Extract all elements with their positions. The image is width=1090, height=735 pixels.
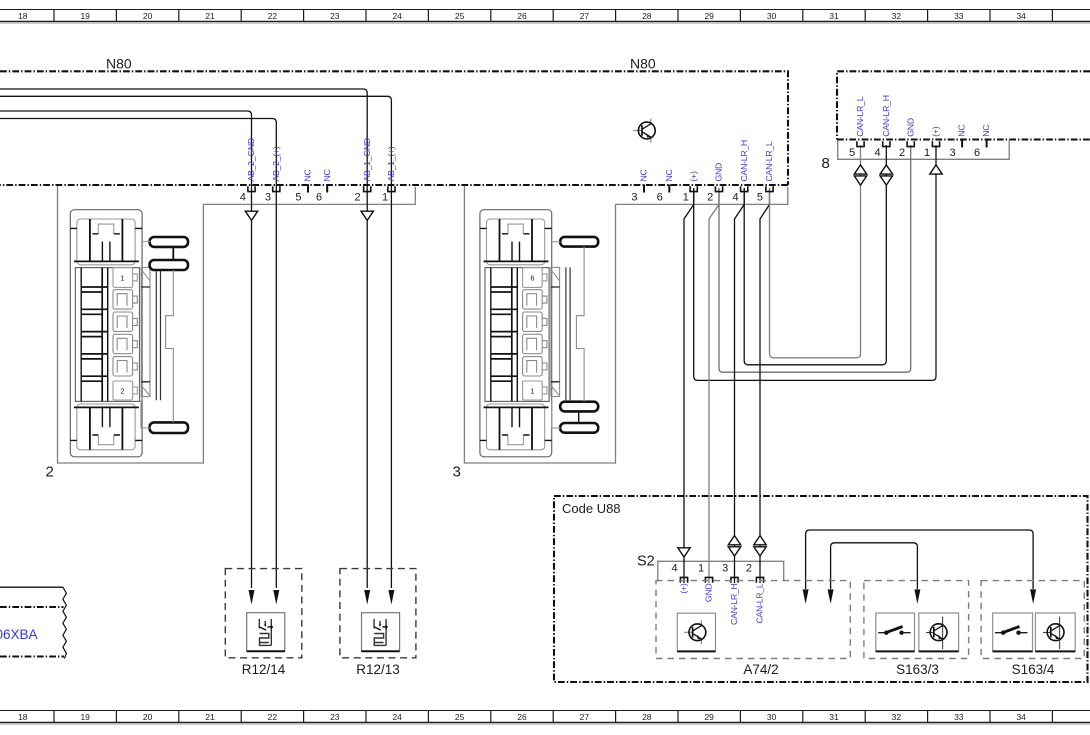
svg-text:2: 2 bbox=[707, 192, 713, 204]
svg-text:25: 25 bbox=[455, 11, 465, 21]
svg-text:4: 4 bbox=[671, 563, 677, 575]
component 2 container bbox=[58, 186, 416, 463]
svg-text:23: 23 bbox=[330, 712, 340, 722]
svg-text:AB_2_GND: AB_2_GND bbox=[246, 138, 256, 181]
svg-text:CAN-LR_H: CAN-LR_H bbox=[881, 95, 891, 136]
connector 8 pin 1 tick bbox=[932, 141, 941, 146]
svg-text:AB_1_GND: AB_1_GND bbox=[362, 138, 372, 181]
svg-text:4: 4 bbox=[240, 192, 246, 204]
svg-text:S2: S2 bbox=[637, 554, 655, 570]
svg-text:N80: N80 bbox=[630, 56, 656, 72]
net CAN-LR_H: N80 pin4 to connector8 pin4 bbox=[744, 145, 886, 365]
net CAN-LR_L: N80 pin5 to connector8 pin5 bbox=[770, 145, 861, 358]
svg-text:19: 19 bbox=[80, 712, 90, 722]
N80 connector 3 pin 5 tick bbox=[765, 186, 774, 191]
svg-text:1: 1 bbox=[924, 147, 930, 159]
svg-text:18: 18 bbox=[18, 712, 28, 722]
R12/14 element icon box bbox=[247, 613, 285, 652]
svg-text:22: 22 bbox=[268, 11, 278, 21]
svg-text:30: 30 bbox=[767, 11, 777, 21]
N80 connector 3 pin 3 NC tick bbox=[643, 185, 645, 193]
svg-text:(+): (+) bbox=[931, 126, 941, 136]
net (+): N80 pin1 to connector8 pin1 bbox=[694, 145, 936, 380]
feed wire to pin4 AB_2_GND bbox=[0, 111, 252, 588]
N80 connector 2 pin 6 NC tick bbox=[326, 185, 328, 193]
svg-text:3: 3 bbox=[453, 464, 461, 481]
svg-text:CAN-LR_L: CAN-LR_L bbox=[764, 141, 774, 181]
svg-text:4: 4 bbox=[874, 147, 880, 159]
R12/14 heater element icon bbox=[259, 619, 273, 646]
svg-text:20: 20 bbox=[143, 11, 153, 21]
twisted pair symbol on CAN-LR_H wire at S2 bbox=[728, 536, 740, 556]
feed wire to pin2 AB_1_GND bbox=[0, 89, 367, 588]
component S163/4 dashed box bbox=[981, 581, 1084, 677]
S2 pin 1 tick bbox=[705, 577, 714, 582]
N80 connector 2 pin 2 tick bbox=[363, 186, 372, 191]
svg-text:21: 21 bbox=[205, 712, 215, 722]
arrow into A74/2 from S163/4 wire bbox=[803, 589, 809, 604]
svg-text:24: 24 bbox=[392, 11, 402, 21]
net (+): N80 pin1 to S2 pin4 bbox=[684, 188, 694, 583]
svg-text:4: 4 bbox=[732, 192, 738, 204]
feed wire to pin3 AB_2_(+) bbox=[0, 119, 276, 589]
component 2 connector housing drawing bbox=[70, 210, 188, 457]
arrow into S163/3 bbox=[914, 589, 920, 604]
svg-text:6: 6 bbox=[530, 274, 534, 283]
S2 pin 4 tick bbox=[680, 577, 689, 582]
net GND: N80 pin2 to connector8 pin2 bbox=[719, 145, 911, 372]
svg-text:28: 28 bbox=[642, 11, 652, 21]
svg-text:1: 1 bbox=[698, 563, 704, 575]
connector 8 pin 2 tick bbox=[906, 141, 915, 146]
connector 8 pin 6 NC tick bbox=[986, 139, 988, 147]
N80 connector 2 pin 3 tick bbox=[272, 186, 281, 191]
S163/3 switch icon bbox=[878, 627, 911, 635]
svg-text:30: 30 bbox=[767, 712, 777, 722]
connector 8 pin 4 tick bbox=[882, 141, 891, 146]
svg-text:21: 21 bbox=[205, 11, 215, 21]
svg-text:S163/3: S163/3 bbox=[896, 662, 939, 677]
svg-text:5: 5 bbox=[757, 192, 763, 204]
direction triangle on AB_1_GND wire bbox=[361, 211, 373, 220]
svg-text:2: 2 bbox=[120, 387, 124, 396]
svg-text:20: 20 bbox=[143, 712, 153, 722]
svg-text:(+): (+) bbox=[688, 171, 698, 181]
transistor icon inside N80 bbox=[633, 119, 655, 143]
N80 connector 2 pin 1 tick bbox=[387, 186, 396, 191]
N80 connector 3 pin 1 tick bbox=[689, 186, 698, 191]
svg-text:8: 8 bbox=[822, 155, 830, 172]
twisted pair symbol on CAN-LR_L wire at S2 bbox=[754, 536, 766, 556]
bottom ruler bbox=[0, 711, 1090, 725]
svg-text:26: 26 bbox=[517, 712, 527, 722]
svg-text:06XBA: 06XBA bbox=[0, 627, 38, 642]
N80 connector 2 pin 5 NC tick bbox=[307, 185, 309, 193]
net CAN-LR_H: N80 pin4 to S2 pin3 bbox=[735, 188, 745, 583]
svg-text:24: 24 bbox=[392, 712, 402, 722]
svg-text:6: 6 bbox=[657, 192, 663, 204]
svg-text:NC: NC bbox=[303, 169, 313, 181]
svg-text:NC: NC bbox=[957, 125, 967, 137]
net GND: N80 pin2 to S2 pin1 bbox=[709, 188, 719, 583]
S163/4 switch icon bbox=[995, 627, 1028, 635]
S2 pin 2 tick bbox=[756, 577, 765, 582]
svg-text:29: 29 bbox=[704, 712, 714, 722]
S2 pin 3 tick bbox=[730, 577, 739, 582]
svg-text:34: 34 bbox=[1016, 712, 1026, 722]
S163/3 transistor icon bbox=[926, 617, 947, 650]
arrow into S163/4 bbox=[1030, 589, 1036, 604]
component R12/14 dashed box bbox=[225, 569, 301, 677]
connector 8 pin 3 NC tick bbox=[961, 139, 963, 147]
svg-text:5: 5 bbox=[849, 147, 855, 159]
svg-text:3: 3 bbox=[949, 147, 955, 159]
svg-text:31: 31 bbox=[829, 712, 839, 722]
direction triangle on AB_2_GND wire bbox=[245, 211, 257, 220]
twisted pair symbol on CAN-LR_H wire at connector 8 bbox=[880, 165, 892, 185]
svg-text:GND: GND bbox=[905, 118, 915, 137]
R12/13 element icon box bbox=[362, 613, 400, 652]
svg-text:3: 3 bbox=[631, 192, 637, 204]
svg-text:32: 32 bbox=[892, 11, 902, 21]
svg-text:19: 19 bbox=[80, 11, 90, 21]
arrow into A74/2 from S163/3 wire bbox=[828, 589, 834, 604]
svg-text:18: 18 bbox=[18, 11, 28, 21]
svg-text:25: 25 bbox=[455, 712, 465, 722]
svg-text:Code U88: Code U88 bbox=[562, 501, 621, 516]
svg-text:22: 22 bbox=[268, 712, 278, 722]
svg-text:6: 6 bbox=[316, 192, 322, 204]
wire A74/2 to S163/3 bbox=[831, 543, 918, 589]
clips bbox=[150, 237, 188, 247]
svg-text:GND: GND bbox=[704, 584, 714, 603]
svg-text:CAN-LR_H: CAN-LR_H bbox=[739, 140, 749, 181]
svg-text:33: 33 bbox=[954, 712, 964, 722]
arrow into R12/14 pin AB_2_(+) bbox=[273, 590, 279, 605]
svg-text:6: 6 bbox=[974, 147, 980, 159]
svg-text:27: 27 bbox=[580, 11, 590, 21]
svg-text:28: 28 bbox=[642, 712, 652, 722]
feed wire to pin1 AB_1_(+) bbox=[0, 96, 391, 588]
N80 connector 3 pin 6 NC tick bbox=[668, 185, 670, 193]
svg-text:R12/13: R12/13 bbox=[356, 662, 400, 677]
svg-text:34: 34 bbox=[1016, 11, 1026, 21]
svg-text:29: 29 bbox=[704, 11, 714, 21]
svg-text:(+): (+) bbox=[679, 583, 689, 593]
N80 boundary left bbox=[0, 71, 788, 185]
svg-text:32: 32 bbox=[892, 712, 902, 722]
svg-text:S163/4: S163/4 bbox=[1012, 662, 1055, 677]
component S163/3 dashed box bbox=[864, 581, 969, 677]
right device boundary bbox=[837, 71, 1090, 139]
component 3 connector housing drawing bbox=[480, 210, 598, 457]
svg-text:CAN-LR_H: CAN-LR_H bbox=[729, 584, 739, 625]
connector 8 bracket bbox=[838, 140, 1010, 159]
R12/13 heater element icon bbox=[374, 619, 388, 646]
N80 connector 3 pin 4 tick bbox=[740, 186, 749, 191]
N80 connector 2 pin 4 tick bbox=[247, 186, 256, 191]
svg-text:CAN-LR_L: CAN-LR_L bbox=[755, 583, 765, 623]
svg-text:2: 2 bbox=[46, 464, 54, 481]
arrow into R12/14 pin AB_2_GND bbox=[249, 590, 255, 605]
twisted pair symbol on CAN-LR_L wire at connector 8 bbox=[854, 165, 866, 185]
svg-text:3: 3 bbox=[265, 192, 271, 204]
svg-text:1: 1 bbox=[120, 274, 124, 283]
svg-text:N80: N80 bbox=[106, 56, 132, 72]
svg-text:2: 2 bbox=[899, 147, 905, 159]
svg-text:23: 23 bbox=[330, 11, 340, 21]
component R12/13 dashed box bbox=[340, 569, 416, 677]
svg-text:1: 1 bbox=[382, 192, 388, 204]
svg-text:NC: NC bbox=[981, 125, 991, 137]
svg-text:3: 3 bbox=[722, 563, 728, 575]
S163/4 transistor icon bbox=[1043, 617, 1064, 650]
svg-text:NC: NC bbox=[322, 169, 332, 181]
svg-text:GND: GND bbox=[714, 163, 724, 182]
svg-text:CAN-LR_L: CAN-LR_L bbox=[855, 96, 865, 136]
svg-text:AB_1_(+): AB_1_(+) bbox=[386, 146, 396, 181]
S2 bracket bbox=[658, 561, 784, 580]
svg-text:31: 31 bbox=[829, 11, 839, 21]
svg-text:33: 33 bbox=[954, 11, 964, 21]
svg-text:1: 1 bbox=[530, 387, 534, 396]
arrow into R12/13 pin AB_1_GND bbox=[364, 590, 370, 605]
direction triangle on (+) wire at S2 bbox=[678, 548, 690, 557]
svg-text:5: 5 bbox=[295, 192, 301, 204]
svg-text:R12/14: R12/14 bbox=[242, 662, 286, 677]
N80 connector 3 pin 2 tick bbox=[715, 186, 724, 191]
Code U88 box bbox=[554, 496, 1088, 682]
svg-text:27: 27 bbox=[580, 712, 590, 722]
wire A74/2 to S163/4 bbox=[806, 530, 1034, 589]
clips bbox=[560, 237, 598, 247]
top ruler bbox=[0, 10, 1090, 24]
svg-text:26: 26 bbox=[517, 11, 527, 21]
svg-text:2: 2 bbox=[354, 192, 360, 204]
svg-text:NC: NC bbox=[639, 169, 649, 181]
direction triangle on (+) wire at connector 8 bbox=[930, 165, 942, 174]
svg-text:1: 1 bbox=[683, 192, 689, 204]
component A74/2 dashed box bbox=[656, 581, 850, 677]
svg-text:A74/2: A74/2 bbox=[743, 662, 778, 677]
svg-text:AB_2_(+): AB_2_(+) bbox=[271, 146, 281, 181]
connector 8 pin 5 tick bbox=[856, 141, 865, 146]
svg-text:NC: NC bbox=[664, 169, 674, 181]
component 3 container bbox=[464, 186, 787, 463]
svg-text:2: 2 bbox=[746, 563, 752, 575]
arrow into R12/13 pin AB_1_(+) bbox=[388, 590, 394, 605]
net CAN-LR_L: N80 pin5 to S2 pin2 bbox=[760, 188, 770, 583]
